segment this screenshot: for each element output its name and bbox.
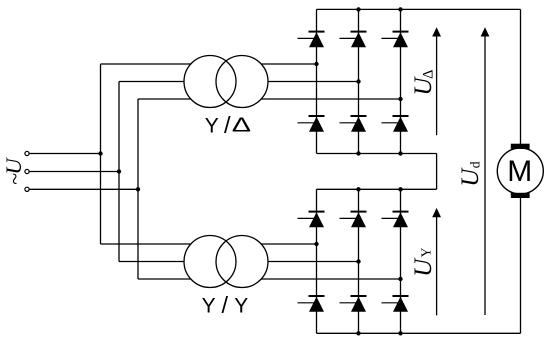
svg-text:Δ: Δ — [232, 114, 251, 137]
svg-text:/: / — [224, 112, 231, 138]
svg-text:~: ~ — [2, 173, 27, 185]
svg-text:U: U — [457, 167, 484, 187]
svg-text:U: U — [410, 257, 437, 277]
svg-text:U: U — [1, 157, 26, 175]
svg-text:M: M — [507, 155, 532, 188]
svg-text:d: d — [467, 161, 482, 168]
svg-text:Y: Y — [202, 295, 216, 318]
svg-text:/: / — [222, 292, 229, 318]
svg-text:Y: Y — [234, 295, 248, 318]
svg-text:Δ: Δ — [420, 70, 436, 79]
svg-text:Y: Y — [418, 247, 433, 257]
svg-text:Y: Y — [205, 115, 219, 138]
